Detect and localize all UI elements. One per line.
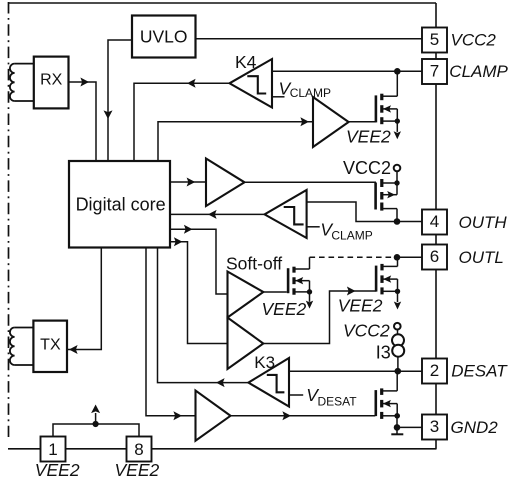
svg-text:GND2: GND2 bbox=[451, 418, 499, 437]
svg-text:VEE2: VEE2 bbox=[115, 460, 160, 478]
svg-text:VEE2: VEE2 bbox=[338, 296, 383, 316]
svg-text:DESAT: DESAT bbox=[318, 395, 358, 409]
svg-text:DESAT: DESAT bbox=[451, 361, 508, 380]
svg-text:VEE2: VEE2 bbox=[35, 460, 80, 478]
svg-text:I3: I3 bbox=[376, 343, 391, 363]
svg-text:OUTL: OUTL bbox=[459, 248, 504, 267]
svg-text:6: 6 bbox=[430, 247, 439, 266]
svg-text:2: 2 bbox=[430, 361, 439, 380]
svg-text:VCC2: VCC2 bbox=[451, 30, 497, 49]
svg-text:CLAMP: CLAMP bbox=[290, 86, 331, 100]
svg-text:5: 5 bbox=[430, 30, 439, 49]
svg-text:3: 3 bbox=[430, 417, 439, 436]
svg-text:Soft-off: Soft-off bbox=[226, 254, 282, 274]
svg-text:4: 4 bbox=[430, 212, 439, 231]
svg-text:1: 1 bbox=[48, 440, 57, 459]
svg-text:8: 8 bbox=[134, 440, 143, 459]
svg-text:K3: K3 bbox=[254, 353, 275, 372]
svg-text:K4: K4 bbox=[235, 52, 257, 72]
svg-text:Digital core: Digital core bbox=[76, 194, 166, 214]
svg-text:CLAMP: CLAMP bbox=[449, 62, 508, 81]
svg-text:VCC2: VCC2 bbox=[343, 321, 390, 341]
svg-text:RX: RX bbox=[40, 72, 63, 89]
svg-text:VEE2: VEE2 bbox=[262, 299, 307, 319]
svg-text:OUTH: OUTH bbox=[459, 213, 508, 232]
svg-text:CLAMP: CLAMP bbox=[331, 228, 372, 242]
svg-text:VEE2: VEE2 bbox=[346, 127, 391, 147]
svg-text:TX: TX bbox=[40, 337, 61, 354]
svg-text:UVLO: UVLO bbox=[140, 27, 188, 47]
svg-text:7: 7 bbox=[430, 62, 439, 81]
svg-text:VCC2: VCC2 bbox=[343, 158, 391, 178]
